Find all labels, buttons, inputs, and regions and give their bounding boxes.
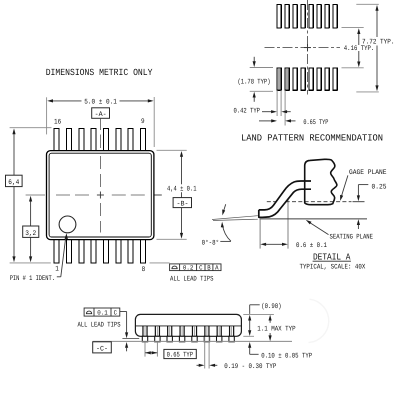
dimension 0.19 - 0.30 TYP arrows — [197, 364, 200, 366]
svg-text:0.65 TYP: 0.65 TYP — [167, 352, 193, 360]
lead profile detail A fill — [259, 181, 311, 217]
gage plane dashed line — [267, 201, 352, 203]
pin 1 ident leader — [57, 236, 66, 277]
dimension 0.65 TYP — [259, 120, 272, 122]
feature control frame 0.2 C B A — [170, 264, 221, 271]
svg-text:4,4 ± 0.1: 4,4 ± 0.1 — [167, 186, 197, 194]
svg-text:1: 1 — [55, 266, 59, 274]
svg-text:0°-8°: 0°-8° — [202, 240, 220, 248]
angle reference lines 0-8 — [212, 216, 258, 221]
svg-text:0.10 ± 0.05 TYP: 0.10 ± 0.05 TYP — [261, 353, 312, 361]
angle arc with arrow — [222, 225, 231, 242]
svg-text:TYPICAL, SCALE: 40X: TYPICAL, SCALE: 40X — [300, 264, 366, 272]
dimension 1.1 MAX TYP — [269, 320, 271, 336]
dimension 6,4 — [13, 134, 15, 258]
svg-text:C: C — [114, 310, 118, 317]
svg-text:DIMENSIONS METRIC ONLY: DIMENSIONS METRIC ONLY — [46, 67, 153, 78]
svg-text:(0.90): (0.90) — [261, 302, 281, 311]
dimension 7.72 TYP extension lines — [356, 4, 379, 92]
svg-text:SEATING PLANE: SEATING PLANE — [330, 233, 374, 241]
dimension 6,4 extension lines — [10, 128, 52, 263]
dimension 7.72 TYP — [376, 10, 378, 86]
land pads bottom row — [277, 68, 337, 90]
svg-text:4.16 TYP.: 4.16 TYP. — [344, 45, 375, 53]
center cross — [154, 194, 162, 196]
dimension 5.0 ± 0.1 — [52, 100, 149, 102]
svg-text:ALL LEAD TIPS: ALL LEAD TIPS — [170, 276, 214, 284]
dimension 3,2 — [30, 201, 32, 258]
svg-text:3,2: 3,2 — [25, 230, 36, 238]
package body section detail A — [305, 159, 337, 204]
land pattern vertical center line — [307, 0, 309, 95]
bottom pins row (1..8) — [54, 239, 145, 263]
dimension 0.10 ± 0.05 TYP leader — [250, 347, 259, 354]
svg-text:B: B — [207, 264, 211, 271]
dimension 4,4 ± 0.1 — [181, 156, 183, 233]
pin 1 index circle — [59, 216, 76, 233]
lead profile detail A outline — [259, 181, 311, 210]
svg-text:16: 16 — [54, 119, 61, 127]
svg-text:ALL LEAD TIPS: ALL LEAD TIPS — [78, 321, 121, 329]
dimension 0.65 TYP arrows — [145, 352, 157, 354]
extension lines through pads for 0.42 and 0.65 — [278, 69, 280, 89]
svg-text:GAGE PLANE: GAGE PLANE — [349, 169, 387, 177]
dimension 0.65 TYP extension lines — [145, 342, 157, 357]
land pattern horizontal center line — [265, 47, 341, 49]
svg-text:5.0 ± 0.1: 5.0 ± 0.1 — [84, 98, 117, 106]
svg-text:6,4: 6,4 — [8, 179, 19, 187]
0.6 extension lines — [260, 193, 288, 249]
svg-text:0.19 - 0.30 TYP: 0.19 - 0.30 TYP — [224, 363, 276, 371]
svg-text:(1.78 TYP): (1.78 TYP) — [238, 78, 271, 87]
dimension (1.78 TYP) arrows — [253, 57, 255, 62]
svg-text:PIN # 1 IDENT.: PIN # 1 IDENT. — [10, 275, 55, 283]
svg-text:LAND PATTERN RECOMMENDATION: LAND PATTERN RECOMMENDATION — [241, 133, 383, 144]
package body outline inner — [49, 153, 151, 237]
dimension 5.0 ± 0.1 extension lines — [47, 97, 155, 147]
dimension (0.90) bracket — [250, 305, 260, 331]
boxed 0.65 TYP — [164, 349, 196, 358]
svg-text:0.2: 0.2 — [183, 264, 194, 271]
faint watermark arc — [309, 299, 329, 342]
svg-text:0.6 ± 0.1: 0.6 ± 0.1 — [296, 242, 327, 250]
dimension 4.16 TYP extension lines — [342, 28, 364, 68]
gage plane 0.25 bracket — [358, 185, 368, 196]
svg-text:8: 8 — [142, 266, 146, 274]
dimension 0.19 - 0.30 TYP extension lines — [205, 337, 209, 369]
tolerance zone line — [122, 338, 139, 340]
svg-text:0.25: 0.25 — [372, 183, 387, 191]
svg-text:1.1 MAX TYP: 1.1 MAX TYP — [257, 326, 295, 334]
svg-text:-B-: -B- — [177, 200, 189, 208]
datum A box — [92, 108, 110, 119]
svg-text:-C-: -C- — [96, 345, 108, 353]
body top extension line — [243, 313, 274, 315]
side view leads — [142, 326, 234, 342]
feature control frame 0.1 C — [84, 308, 120, 316]
seating plane line — [260, 218, 368, 220]
body center lines over fill — [56, 194, 145, 196]
frame leader with arrow — [120, 312, 127, 334]
land pads top row — [277, 5, 337, 28]
angle arrow upper — [224, 204, 226, 211]
body mid line — [135, 325, 241, 327]
svg-text:9: 9 — [141, 118, 145, 126]
svg-text:0.1: 0.1 — [97, 310, 108, 317]
svg-text:-A-: -A- — [95, 111, 107, 119]
side view body — [135, 314, 241, 336]
svg-text:A: A — [215, 264, 219, 271]
svg-text:0.65 TYP: 0.65 TYP — [303, 119, 328, 127]
dimension 4,4 ± 0.1 extension lines — [157, 150, 187, 239]
leader to tolerance frame — [150, 262, 170, 264]
dimension 4.16 TYP — [358, 34, 360, 62]
land center cross — [304, 44, 311, 51]
vertical center line — [99, 119, 101, 149]
top pins row (16..9) — [54, 128, 145, 151]
dimension (1.78 TYP) extension lines — [250, 68, 273, 92]
datum B box — [173, 198, 191, 208]
dimension 0.6 ± 0.1 — [265, 243, 284, 245]
seating plane line bottom view — [93, 340, 292, 342]
svg-text:0.42 TYP: 0.42 TYP — [234, 107, 261, 115]
package body outline outer — [47, 151, 154, 240]
datum C box — [93, 342, 112, 353]
svg-text:C: C — [199, 264, 203, 271]
body bottom extension line — [243, 335, 254, 337]
